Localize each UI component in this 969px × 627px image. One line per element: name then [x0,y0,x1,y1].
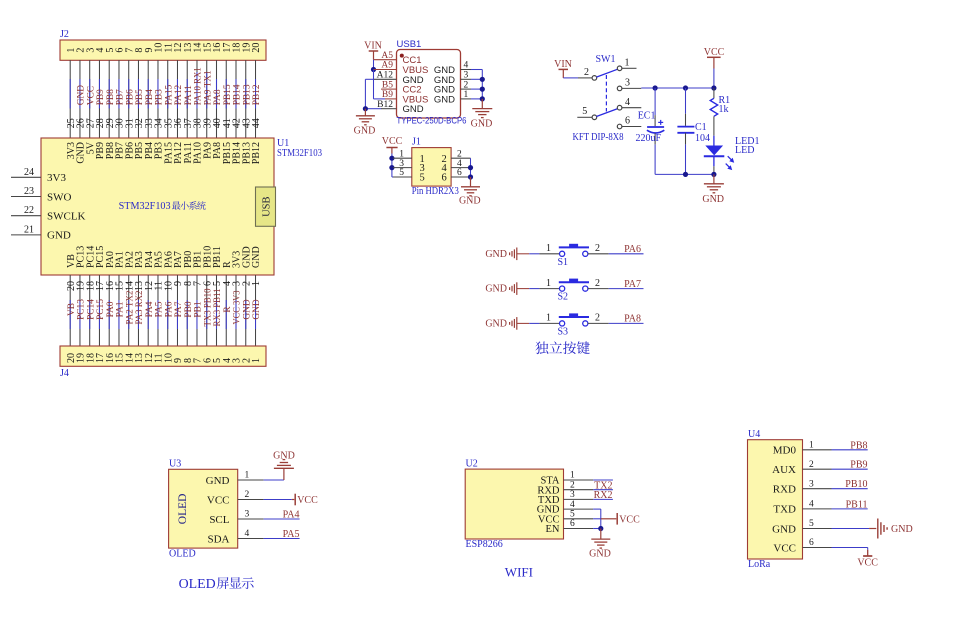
svg-text:S2: S2 [558,292,569,303]
net label PB0 [184,301,194,317]
net label PB1 [194,301,204,317]
net label PB8 [850,440,867,451]
U3 pin 3 lead [238,510,264,520]
svg-text:1: 1 [464,90,469,100]
ground symbol (S2) [485,282,516,295]
svg-text:VCC: VCC [86,86,96,105]
designator U3 [169,459,181,470]
svg-text:VCC: VCC [382,136,403,147]
junction U2 ground [598,526,603,531]
svg-text:PA15: PA15 [164,84,174,105]
SW1 pole 2 (pins 5-4) [577,97,641,120]
pin name GND [47,230,71,242]
svg-text:B5: B5 [382,80,393,90]
svg-text:TXD: TXD [773,504,796,516]
USB1 pin names [403,55,456,115]
J1 pin 1 lead [393,149,412,159]
wires U1 pins 20-1 to J4 [70,275,255,346]
value ESP8266 [466,539,503,550]
net label PA1 [116,301,126,317]
SW1 pin 6 contact [617,116,641,129]
wire U1 pin 23 (SWO) [11,196,41,198]
pin number 22 [24,205,34,216]
svg-text:VIN: VIN [554,59,572,70]
U2 pin 1 lead [564,471,594,481]
svg-text:PB12: PB12 [252,84,262,105]
svg-text:20: 20 [251,43,262,53]
wire U1 pin 24 (3V3) [11,176,41,178]
svg-text:VCC: VCC [857,558,878,569]
svg-text:PC13: PC13 [77,299,87,320]
U1 top pin numbers 25-44 [66,118,262,128]
svg-text:VCC: VCC [773,542,796,554]
svg-text:J1: J1 [412,137,421,148]
wire U2 TXD to RX2 [593,498,613,500]
caption OLED display [179,577,254,592]
USB1 pin 1 lead [461,90,472,100]
value OLED [169,549,196,560]
svg-text:GND: GND [206,475,230,487]
value KFT DIP-8X8 [573,132,624,143]
svg-text:PB0: PB0 [184,301,194,317]
svg-text:PC15: PC15 [96,299,106,320]
svg-text:GND: GND [434,94,455,105]
ground label GND (USB1 right) [471,119,493,130]
svg-text:6: 6 [457,168,462,178]
designator U2 [466,459,478,470]
ground symbol (U4, pointing right) [878,519,887,539]
net label PA15 [164,84,174,105]
svg-text:3: 3 [809,479,814,489]
designator USB1 [397,39,422,50]
svg-text:GND: GND [459,196,481,207]
svg-text:S1: S1 [558,257,569,268]
USB1 pin 2 lead [461,80,472,90]
reference designator J4 [60,368,69,379]
designator SW1 [596,54,616,65]
ground symbol (S1) [485,248,516,261]
pin number 21 [24,224,34,235]
SW1 linkage dashed line [605,75,607,112]
svg-text:PA8: PA8 [624,314,641,325]
svg-text:6: 6 [570,519,575,529]
svg-text:PB1: PB1 [194,301,204,317]
ground symbol (S3) [485,317,516,330]
svg-text:104: 104 [695,133,710,144]
svg-text:PB3: PB3 [155,89,165,105]
wire VCC down to rail [713,69,715,89]
power port VCC (U4, pointing down) [857,556,878,569]
wire S3 to PA8 [588,322,644,324]
svg-text:PB13: PB13 [242,84,252,105]
svg-text:1: 1 [546,313,551,324]
wire J1 even pins to ground [470,158,472,177]
wire U2 VCC pin to VCC [593,518,616,520]
value TYPEC-250D-BCP6 [397,116,467,127]
svg-text:J4: J4 [60,368,69,379]
net label GND [252,299,262,320]
svg-text:PA6: PA6 [624,244,641,255]
svg-text:4: 4 [809,500,814,510]
USB1 pin 3 lead [461,71,472,81]
net label PA2 TX2 [125,290,135,324]
wire A9 to B9 (blue) [374,70,386,99]
U2 pin 3 lead [564,490,594,500]
push button S2 [546,278,600,303]
wire VIN to SW1 pin 2 [563,77,592,79]
svg-text:1: 1 [251,358,262,363]
svg-text:GND: GND [77,85,87,106]
U4 pin 6 lead [803,538,832,548]
U4 pin 1 lead [803,441,832,451]
net label PB3 [155,89,165,105]
svg-text:4: 4 [570,500,575,510]
svg-text:5: 5 [570,510,575,520]
svg-text:2: 2 [595,278,600,289]
USB connector USB1 body [397,50,461,119]
connector J4 [60,346,266,366]
svg-text:1: 1 [245,471,250,481]
svg-text:USB: USB [261,196,272,216]
net label PA6 [624,244,641,255]
net label GND [77,85,87,106]
net label PA11 [184,85,194,105]
value LoRa [748,559,771,570]
junction dots top rail [653,85,717,90]
wire U2 STA stub [593,479,613,481]
svg-text:C1: C1 [695,122,707,133]
svg-text:GND: GND [47,230,71,242]
svg-text:PB8: PB8 [106,89,116,105]
capacitor C1 (104) [677,88,694,174]
svg-text:6: 6 [625,116,630,127]
svg-text:GND: GND [354,126,376,137]
svg-text:22: 22 [24,205,34,216]
net label PB5 [135,89,145,105]
net label RX3 PB11 [213,288,223,326]
power port VCC (J1) [382,136,403,153]
svg-text:220uF: 220uF [636,133,662,144]
svg-text:PB9: PB9 [96,89,106,105]
svg-text:44: 44 [251,118,262,128]
U2 pin 6 lead [564,519,594,529]
J1 pin 6 lead [451,168,470,178]
pin name SWO [47,191,72,203]
connector J1 body [412,148,451,187]
U2 pin 5 lead [564,510,594,520]
net label PC14 [86,299,96,320]
U3 pin 2 lead [238,490,264,500]
svg-text:GND: GND [403,104,424,115]
svg-text:PB4: PB4 [145,89,155,105]
svg-text:R: R [223,306,233,313]
svg-text:3: 3 [245,510,250,520]
pin A9 lead (VBUS) [374,61,397,71]
power port VCC (U3) [295,494,318,506]
caption WIFI [505,565,533,580]
net label PA9 TX1 [203,70,213,105]
svg-text:GND: GND [485,318,507,329]
svg-text:3: 3 [570,490,575,500]
svg-text:3: 3 [625,78,630,89]
svg-text:B9: B9 [382,90,393,100]
svg-text:PA6: PA6 [164,301,174,317]
svg-text:PA10 RX1: PA10 RX1 [194,67,204,105]
svg-text:PB9: PB9 [850,460,867,471]
J1 pin 2 lead [451,149,470,159]
svg-text:GND: GND [471,119,493,130]
ground symbol (U3, pointing up) [274,460,294,469]
ground label GND (USB1 left) [354,126,376,137]
svg-text:PA2 TX2: PA2 TX2 [125,290,135,324]
svg-text:A9: A9 [381,61,393,71]
svg-text:1: 1 [546,278,551,289]
net label R [223,306,233,313]
svg-text:1k: 1k [719,104,729,115]
net label PB10 [845,479,867,490]
svg-text:PB5: PB5 [135,89,145,105]
svg-text:SW1: SW1 [596,54,616,65]
resistor R1 1k [710,88,718,136]
ground symbol (USB1 right) [472,99,492,118]
wires J2 pins 1-20 to U1 pins 25-44 [70,60,255,138]
svg-text:PA12: PA12 [174,84,184,105]
ground symbol (J1) [461,177,480,196]
power port VIN [364,41,382,60]
wire U4 to PB11 [832,508,868,510]
svg-text:24: 24 [24,167,34,178]
pin name 3V3 [47,172,66,184]
ground symbol (USB1 left) [356,109,375,125]
svg-text:6: 6 [809,538,814,548]
power port VCC (rail) [704,47,725,69]
ground label GND (J1) [459,196,481,207]
value LED [735,145,754,156]
capacitor EC1 (electrolytic 220uF) [647,88,664,174]
title text STM32F103 minimal system [119,201,206,212]
svg-text:U2: U2 [466,459,478,470]
pin A12 lead (GND) [374,71,397,81]
svg-text:S3: S3 [558,326,569,337]
svg-text:5: 5 [582,106,587,117]
net label VCC 3V3 [233,290,243,324]
svg-text:RX2: RX2 [594,490,613,501]
svg-text:PC14: PC14 [86,299,96,320]
net label PA7 [624,279,641,290]
net label PA0 [106,301,116,317]
net label PA7 [174,301,184,317]
ground label GND (power rail) [702,194,724,205]
J1 pin 3 lead [393,159,412,169]
ground symbol (U2) [591,529,610,549]
svg-text:1: 1 [546,243,551,254]
svg-text:AUX: AUX [772,464,796,476]
net label PA5 [155,301,165,317]
svg-text:PB8: PB8 [850,440,867,451]
svg-text:STM32F103: STM32F103 [119,201,171,212]
svg-text:VCC 3V3: VCC 3V3 [233,290,243,324]
connector J2 [60,40,266,60]
svg-text:WIFI: WIFI [505,565,533,580]
svg-text:PA0: PA0 [106,301,116,317]
label C1 [695,122,707,133]
net label PA4 [283,510,300,521]
wire top rail SW1 to VCC [641,87,714,89]
USB sub-block inside U1 [256,187,276,226]
svg-text:KFT DIP-8X8: KFT DIP-8X8 [573,132,624,143]
label R1 [719,95,731,106]
net label PB7 [116,89,126,105]
wire U4 GND pin to ground [832,528,877,530]
U3 pin 4 lead [238,529,264,539]
ground label GND (U3) [273,451,295,462]
net label PC13 [77,299,87,320]
wire U1 pin 21 (GND) [11,234,41,236]
IC U4 LoRa body [748,440,803,559]
ground symbol (power rail) [704,174,724,192]
svg-text:4: 4 [464,61,469,71]
svg-text:EC1: EC1 [638,111,656,122]
label EC1 [638,111,656,122]
wire U4 to PB8 [832,449,868,451]
junction dots bottom rail [683,172,717,177]
svg-text:PA5: PA5 [155,301,165,317]
svg-text:2: 2 [595,243,600,254]
value STM32F103 [277,148,322,159]
net label PB8 [106,89,116,105]
svg-text:VIN: VIN [364,41,382,52]
power port VCC (U2) [617,513,640,525]
svg-text:PB12: PB12 [251,142,262,164]
svg-text:MD0: MD0 [773,445,797,457]
net label PC15 [96,299,106,320]
svg-text:2: 2 [809,460,814,470]
net label PA8 [624,314,641,325]
pin number 24 [24,167,34,178]
svg-text:LoRa: LoRa [748,559,771,570]
svg-text:2: 2 [464,80,469,90]
svg-text:U4: U4 [748,429,760,440]
wire S1 to PA6 [588,253,644,255]
wire right pins to ground (blue) [471,70,482,99]
value 1k [719,104,729,115]
svg-text:PA11: PA11 [184,85,194,105]
svg-text:U3: U3 [169,459,181,470]
svg-text:VCC: VCC [297,495,318,506]
svg-text:TX3 PB10: TX3 PB10 [203,288,213,326]
svg-text:STM32F103: STM32F103 [277,148,322,159]
net label PA5 [283,529,300,540]
value 220uF [636,133,662,144]
push button S1 [546,243,600,268]
junction dots right ground rail [480,77,485,102]
net label TX2 [594,480,612,491]
svg-text:2: 2 [245,490,250,500]
U4 pin 3 lead [803,479,832,489]
svg-text:VB: VB [67,303,77,316]
U3 pin 1 lead [238,471,264,481]
pin number 23 [24,186,34,197]
net label PB11 [846,499,868,510]
wire GND to S2 [517,288,560,290]
svg-text:4: 4 [245,529,250,539]
caption independent buttons [535,341,590,354]
SW1 pin 3 contact [617,78,641,91]
wire U4 to PB9 [832,468,868,470]
pin B9 lead (VBUS) [382,90,397,100]
svg-text:5: 5 [399,168,404,178]
net label VCC [86,86,96,105]
svg-text:PA5: PA5 [283,529,300,540]
svg-text:GND: GND [252,299,262,320]
wire S2 to PA7 [588,288,644,290]
ground label GND (U4) [891,524,913,535]
wire U3 VCC pin to VCC [264,499,295,501]
svg-text:SWO: SWO [47,191,72,203]
switch SW1 pole 1 (pins 2-1) [584,58,637,81]
net label PB6 [125,89,135,105]
svg-text:1: 1 [570,471,575,481]
junction at A9 [371,67,376,72]
pin B12 lead (GND) [377,100,396,110]
U4 pin 4 lead [803,500,832,510]
U4 pin 2 lead [803,460,832,470]
junction dots J1 right [468,165,473,180]
svg-text:2: 2 [584,67,589,78]
svg-text:PA9 TX1: PA9 TX1 [203,70,213,105]
push button S3 [546,313,600,338]
net label PB13 [242,84,252,105]
wire U3 SCL to PA4 [264,518,300,520]
reference designator J2 [60,29,69,40]
svg-text:PB7: PB7 [116,89,126,105]
net label PB14 [233,84,243,105]
svg-text:LED: LED [735,145,754,156]
svg-text:GND: GND [485,249,507,260]
J1 pin 5 lead [393,168,412,178]
svg-text:PB11: PB11 [846,499,868,510]
svg-text:A5: A5 [381,51,393,61]
svg-text:OLED: OLED [169,549,196,560]
svg-text:RX3 PB11: RX3 PB11 [213,288,223,326]
svg-text:1: 1 [809,441,814,451]
designator U1 [277,138,289,149]
svg-text:3V3: 3V3 [47,172,66,184]
net label VB [67,303,77,316]
svg-text:J2: J2 [60,29,69,40]
wire U1 pin 22 (SWCLK) [11,215,41,217]
net label PB9 [850,460,867,471]
designator J1 [412,137,421,148]
svg-text:GND: GND [485,284,507,295]
net label PA3 RX2 [135,290,145,324]
IC U2 ESP8266 body [465,469,563,539]
wire GND to S1 [517,253,560,255]
net label TX3 PB10 [203,288,213,326]
pin A5 lead (CC1) [374,51,397,61]
value Pin HDR2X3 [412,186,459,197]
svg-text:GND: GND [273,451,295,462]
svg-text:OLED: OLED [179,577,216,592]
net label PB12 [252,84,262,105]
wire bottom rail [655,173,714,175]
svg-text:1: 1 [625,58,630,69]
wire VIN to VBUS pins [373,60,375,69]
svg-text:Pin HDR2X3: Pin HDR2X3 [412,186,459,197]
svg-text:SWCLK: SWCLK [47,211,86,223]
LED LED1 [704,136,734,175]
svg-text:ESP8266: ESP8266 [466,539,503,550]
